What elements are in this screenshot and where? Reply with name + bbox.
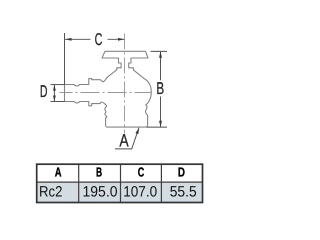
svg-text:D: D — [40, 82, 48, 101]
svg-text:D: D — [178, 165, 185, 180]
svg-text:B: B — [156, 79, 164, 98]
svg-text:C: C — [95, 30, 103, 49]
svg-text:107.0: 107.0 — [123, 184, 157, 201]
svg-text:C: C — [138, 165, 145, 180]
svg-text:A: A — [119, 131, 128, 151]
svg-text:55.5: 55.5 — [170, 184, 197, 201]
svg-text:Rc2: Rc2 — [39, 184, 62, 201]
svg-text:A: A — [55, 165, 62, 180]
svg-text:195.0: 195.0 — [83, 184, 118, 201]
svg-text:B: B — [96, 165, 102, 180]
